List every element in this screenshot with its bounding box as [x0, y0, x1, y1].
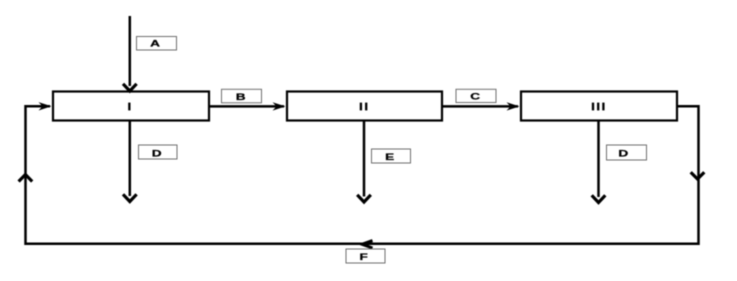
svg-text:D: D [618, 148, 628, 158]
svg-text:D: D [152, 148, 162, 158]
svg-text:A: A [150, 38, 160, 48]
svg-text:B: B [236, 92, 246, 102]
svg-text:C: C [470, 92, 480, 102]
svg-text:E: E [385, 152, 394, 162]
svg-text:F: F [360, 252, 368, 262]
